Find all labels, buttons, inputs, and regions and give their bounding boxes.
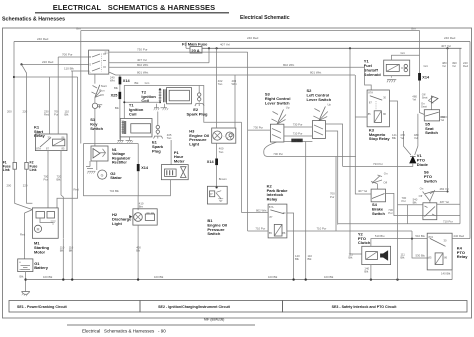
fuse F1 fuse link (3, 161, 17, 173)
spark plug E1 (152, 112, 164, 154)
spark plug E2 (187, 86, 208, 117)
wire blk between connectors (114, 84, 120, 91)
SE2 box (140, 301, 283, 313)
wire enclosure bottom to P1 (138, 180, 170, 196)
svg-text:-: - (224, 134, 225, 138)
wire branch to K1 (14, 77, 78, 134)
svg-text:Light: Light (189, 142, 199, 147)
wire 400 Blk H2 down to bus (136, 225, 141, 280)
relay K4 PTO relay (427, 233, 468, 270)
svg-text:−: − (19, 268, 21, 272)
svg-text:733 Pur: 733 Pur (373, 162, 383, 166)
svg-text:Meter: Meter (174, 159, 185, 164)
clutch Y2 PTO clutch (358, 231, 391, 264)
wire 540 Blk into S6 (398, 204, 423, 206)
svg-text:802 Wht: 802 Wht (137, 63, 148, 67)
svg-text:B: B (89, 55, 91, 59)
svg-text:Coil: Coil (129, 111, 137, 116)
svg-text:Yel: Yel (442, 64, 446, 68)
fuse F2 fuse link (25, 161, 38, 173)
svg-text:407 Yel: 407 Yel (358, 189, 368, 193)
wire Brown to B1 (216, 165, 228, 188)
svg-text:510 Blu: 510 Blu (415, 234, 425, 238)
connector X14 below H3 (207, 159, 218, 166)
svg-text:Blk: Blk (401, 256, 405, 260)
svg-text:Blk: Blk (135, 81, 139, 85)
svg-text:Yel: Yel (412, 97, 416, 101)
svg-text:730 Pur: 730 Pur (137, 48, 148, 52)
svg-text:87A: 87A (429, 235, 434, 239)
wire 407 Yel bus (202, 42, 462, 49)
svg-text:S: S (89, 63, 91, 67)
svg-text:Electrical Schematic: Electrical Schematic (240, 15, 290, 21)
svg-text:Diode: Diode (417, 162, 429, 167)
meter P1 hour meter (161, 150, 188, 180)
svg-text:87A: 87A (368, 91, 373, 95)
wire 480 Yel below X14 (412, 81, 424, 115)
connector X25 black (111, 92, 122, 99)
wire 720 Blk K1 down (57, 151, 64, 238)
svg-text:140 Blk: 140 Blk (441, 271, 451, 275)
svg-text:Seat: Seat (421, 104, 427, 108)
svg-text:407 Yel: 407 Yel (441, 44, 451, 48)
wire 482 Yel into S4 (358, 189, 368, 193)
svg-text:407 Yel: 407 Yel (220, 42, 230, 46)
wire S1 to N1 (94, 109, 96, 147)
svg-text:SE2 - Ignition/Charging/Instru: SE2 - Ignition/Charging/Instrument Circu… (158, 305, 230, 309)
wire 730 Pur drop at 247.6 (247, 52, 249, 231)
wire labels 230 Red 700 Pur 110 Blk (44, 110, 69, 117)
svg-text:Blk: Blk (392, 136, 396, 140)
ground below Y1 (387, 76, 396, 83)
svg-text:Yel: Yel (452, 64, 456, 68)
svg-text:110 Blk: 110 Blk (292, 139, 302, 143)
wire Wht into H3 right (232, 75, 237, 128)
wire 710 Pur from K2 to right (287, 227, 412, 262)
battery G1 (18, 259, 49, 272)
svg-text:Grn: Grn (145, 81, 150, 85)
wire into X14 (119, 75, 121, 77)
svg-text:100 Blk: 100 Blk (43, 275, 53, 279)
wire K4 to bus (451, 270, 453, 280)
SE1 box (9, 301, 140, 313)
switch S6 PTO switch (413, 170, 438, 220)
svg-text:M: M (37, 227, 40, 231)
svg-text:Blk: Blk (69, 249, 73, 253)
svg-text:110 Blk: 110 Blk (64, 66, 74, 70)
coil T1 ignition coil (120, 103, 152, 137)
svg-text:Link: Link (30, 168, 37, 172)
svg-text:200: 200 (7, 110, 12, 114)
svg-text:Link: Link (3, 168, 10, 172)
svg-text:730 Pur: 730 Pur (293, 123, 303, 127)
svg-text:Tan: Tan (167, 136, 172, 140)
svg-text:Off: Off (383, 180, 387, 184)
label 240 Wht (110, 76, 115, 83)
wire 407 Yel from S1 (109, 48, 209, 62)
wire 802 Wht drop to K3 (365, 67, 372, 90)
label 100 Blk near Y2 (349, 253, 354, 260)
svg-text:Solenoid: Solenoid (364, 72, 381, 77)
switch S3 right control lever switch (265, 92, 291, 142)
wire 110 Blk S3-S2 boxed label (284, 139, 313, 143)
wire 730 Pur S3-S2 (284, 123, 313, 127)
svg-text:Yel: Yel (414, 136, 418, 140)
wire 710 Pur into K2 (248, 226, 269, 231)
svg-text:Blk: Blk (349, 256, 353, 260)
svg-text:On: On (420, 186, 424, 190)
svg-text:87A: 87A (269, 205, 274, 209)
svg-text:Stop Relay: Stop Relay (369, 136, 390, 141)
fuse F3 main fuse 20A (182, 42, 208, 54)
switch B1 engine oil pressure switch (207, 186, 227, 236)
svg-text:220 Red: 220 Red (42, 60, 54, 64)
svg-text:100 Blk: 100 Blk (324, 275, 334, 279)
svg-text:Battery: Battery (34, 265, 49, 270)
svg-text:Run: Run (99, 89, 105, 93)
relay K2 park brake interlock relay (267, 183, 289, 238)
svg-text:Blk: Blk (136, 249, 140, 253)
svg-text:G: G (101, 173, 104, 177)
svg-text:801 Wht: 801 Wht (137, 71, 148, 75)
svg-text:801 Wht: 801 Wht (310, 71, 321, 75)
wire 710 Pur wrap (338, 205, 460, 224)
solenoid Y1 fuel shutoff solenoid (364, 59, 410, 77)
svg-text:Yel: Yel (440, 118, 444, 122)
svg-text:Schematics & Harnesses: Schematics & Harnesses (2, 17, 65, 23)
svg-text:407 Yel: 407 Yel (137, 58, 147, 62)
wire Grn corner down to X14 (419, 31, 421, 74)
connector X14 right black (418, 64, 430, 81)
wire 700 Pur label right (402, 196, 407, 203)
svg-text:Relay: Relay (457, 254, 468, 259)
svg-text:240 Red: 240 Red (454, 234, 465, 238)
svg-text:Blk: Blk (114, 86, 118, 90)
svg-text:Pur: Pur (388, 211, 392, 215)
wire 700 Pur to S1 (58, 52, 88, 134)
svg-text:510 Blu: 510 Blu (375, 234, 385, 238)
svg-text:Red: Red (20, 233, 26, 237)
svg-text:240 Red: 240 Red (37, 37, 49, 41)
svg-text:Grn: Grn (411, 27, 416, 31)
svg-text:Plug: Plug (152, 148, 161, 153)
svg-text:Up: Up (327, 103, 331, 107)
svg-text:710 Pur: 710 Pur (443, 219, 453, 223)
wire 510 Blu (371, 234, 427, 246)
svg-text:220: 220 (23, 110, 28, 114)
wire 530 Blu into K4 (412, 231, 429, 258)
footer rule (67, 324, 255, 326)
key symbol (92, 97, 102, 108)
wire engine enclosure top (124, 86, 241, 123)
svg-text:+: + (19, 261, 21, 265)
svg-text:Stator: Stator (110, 175, 122, 180)
wire 482 Yel down to S6 lever (430, 117, 449, 194)
relay K3 magneto stop relay (367, 90, 390, 141)
svg-text:Pur: Pur (402, 199, 406, 203)
svg-text:100 Blk: 100 Blk (154, 275, 164, 279)
connector X14 on enclosure edge (137, 164, 149, 171)
wire Grn into Y1 (392, 51, 420, 60)
svg-text:Spark Plug: Spark Plug (187, 112, 208, 117)
regulator N1 voltage regulator rectifier (91, 146, 130, 165)
wire S2 right out (326, 124, 343, 225)
svg-text:Grn: Grn (424, 64, 429, 68)
wire 482 Yel from S5 (440, 115, 448, 122)
svg-text:240 Red: 240 Red (247, 36, 259, 40)
svg-text:Off: Off (419, 194, 423, 198)
svg-text:Blk: Blk (115, 106, 119, 110)
svg-text:X14: X14 (141, 166, 149, 170)
svg-text:730 Pur: 730 Pur (253, 126, 263, 130)
svg-text:Wht: Wht (110, 79, 115, 83)
switch S1 start run off lever (92, 84, 107, 97)
svg-text:Blk: Blk (65, 113, 69, 117)
svg-text:Clutch: Clutch (358, 240, 371, 245)
svg-text:Switch: Switch (90, 126, 103, 131)
wire 470 Yel drop (392, 131, 411, 155)
switch S1 key switch box (89, 50, 109, 74)
wire 405 Tan to hour meter (167, 133, 172, 165)
svg-text:87A: 87A (36, 147, 41, 151)
svg-text:Light: Light (112, 221, 122, 226)
svg-text:200: 200 (7, 184, 12, 188)
wire 700 Pur long (264, 142, 356, 157)
wire 110 Blk to S1 (64, 66, 89, 71)
svg-text:Blk: Blk (60, 249, 64, 253)
wire 410 Brn to H2 (138, 196, 144, 210)
switch S5 seat switch (421, 92, 440, 135)
svg-text:Red: Red (74, 188, 80, 192)
svg-text:X14: X14 (422, 75, 430, 79)
svg-text:Pur: Pur (54, 113, 58, 117)
svg-text:Wht: Wht (232, 82, 237, 86)
svg-text:MIF (88W208): MIF (88W208) (204, 318, 224, 322)
svg-text:Blk: Blk (57, 178, 61, 182)
svg-text:704 Blk: 704 Blk (110, 189, 120, 193)
svg-text:Lever Switch: Lever Switch (307, 97, 332, 102)
wire Blk battery to ground (20, 272, 27, 292)
svg-text:802 Wht: 802 Wht (283, 63, 294, 67)
svg-text:ELECTRICAL SCHEMATICS & HARN: ELECTRICAL SCHEMATICS & HARNESSES (53, 3, 216, 12)
wire K3 30 out (389, 101, 397, 280)
svg-text:487 Yel: 487 Yel (440, 200, 450, 204)
switch S2 left control lever switch (307, 88, 332, 138)
svg-text:802 Wht: 802 Wht (256, 208, 267, 212)
wire 801 Wht into K3 85 (355, 75, 371, 194)
wire S4 out down (386, 193, 461, 215)
wire right 490 Yel drop (442, 48, 469, 117)
svg-text:100 Blk: 100 Blk (268, 275, 278, 279)
title rule (35, 12, 229, 14)
svg-text:Blk: Blk (364, 269, 368, 273)
wire 802 Wht from S1 (109, 63, 365, 67)
svg-text:X14: X14 (123, 79, 131, 83)
wire 240 Red right drop to K4 (469, 42, 471, 239)
ground below T1 (118, 137, 133, 143)
wire S2 down to bus (305, 142, 307, 280)
relay K1 start relay (34, 124, 45, 138)
wire into S3 left (248, 129, 271, 131)
wire 710 Pur S3-S2 (284, 132, 313, 136)
wire K2 30 out right (287, 213, 294, 280)
wire 240 Red into K4 (452, 234, 470, 239)
wire 100 Blk ground bus (26, 271, 453, 280)
svg-text:Blk: Blk (413, 200, 417, 204)
wire Grn top bus (76, 27, 420, 31)
wire 730 Pur from S1 (109, 48, 248, 53)
wire long vertical 351 (350, 48, 362, 254)
svg-text:Up: Up (286, 105, 290, 109)
svg-text:Red: Red (463, 64, 469, 68)
motor M1 starting motor (32, 208, 58, 255)
svg-text:Rectifier: Rectifier (112, 161, 127, 165)
svg-text:Brown: Brown (219, 177, 227, 181)
ground in alternator box (86, 161, 96, 174)
wire drop 254.7 (241, 122, 243, 212)
wire 200 down from 240 Red corner (7, 42, 15, 163)
lamp H2 discharge light (112, 209, 157, 226)
svg-text:Electrical Schematics & Harn: Electrical Schematics & Harnesses - 90 (82, 329, 166, 334)
svg-text:Switch: Switch (372, 211, 385, 216)
svg-text:Off: Off (100, 93, 104, 97)
switch S4 brake switch (371, 171, 388, 215)
wire 700 Pur down to 710 line (330, 157, 336, 232)
svg-text:Grn: Grn (76, 27, 81, 31)
wire 141 Blk down to bus (401, 253, 406, 260)
svg-text:Yel: Yel (400, 136, 404, 140)
svg-text:Pur: Pur (330, 195, 334, 199)
svg-text:482 Yel: 482 Yel (440, 187, 450, 191)
svg-text:Red: Red (44, 113, 50, 117)
svg-text:Relay: Relay (267, 197, 278, 202)
wire 220 down to F2 (22, 64, 28, 162)
wire blk below X25 (115, 99, 120, 140)
connector X14 black (119, 77, 131, 85)
svg-text:Brn: Brn (139, 205, 144, 209)
box alternator enclosure (84, 144, 139, 196)
wire 220 Red branch (20, 60, 88, 66)
wire Red to battery (20, 210, 32, 259)
wire F1 to starter (15, 169, 33, 209)
svg-text:Tan: Tan (218, 82, 223, 86)
wire 400 Tan below H3 (217, 143, 224, 158)
svg-text:X14: X14 (207, 160, 215, 164)
svg-text:X25: X25 (111, 94, 118, 98)
wire 110 Blk second down (69, 71, 74, 279)
svg-text:Switch: Switch (207, 231, 220, 236)
coil T2 ignition coil (123, 88, 191, 104)
wire 140 Blk Y2 down (364, 265, 371, 280)
wire Red down right of K1 (57, 77, 79, 208)
svg-text:Blk: Blk (20, 275, 24, 279)
svg-text:530 Blu: 530 Blu (416, 253, 426, 257)
svg-text:700 Pur: 700 Pur (62, 52, 73, 56)
svg-text:710 Pur: 710 Pur (255, 226, 265, 230)
wire 801 Wht from S1 (109, 71, 355, 75)
svg-text:710 Pur: 710 Pur (317, 227, 327, 231)
svg-text:SE3 - Safety Interlock and PTO: SE3 - Safety Interlock and PTO Circuit (332, 305, 398, 309)
wire 487 Yel S6 right (437, 48, 460, 224)
wire F2 to starter (27, 169, 33, 203)
svg-text:On: On (384, 171, 388, 175)
svg-text:Blk: Blk (295, 257, 299, 261)
wire 480 Yel drop to diode (414, 114, 419, 155)
stator G2 (97, 161, 122, 180)
wire diode down left (343, 163, 413, 167)
ground below T2 (154, 104, 168, 110)
diode V1 PTO diode (410, 153, 429, 167)
svg-text:220: 220 (23, 184, 28, 188)
svg-text:240 Red: 240 Red (444, 36, 456, 40)
svg-text:Switch: Switch (424, 178, 437, 183)
wire Grn drop from top (80, 31, 82, 144)
svg-text:SE1 - Power/Cranking Circuit: SE1 - Power/Cranking Circuit (17, 305, 68, 309)
svg-text:710 Pur: 710 Pur (293, 132, 303, 136)
lamp H3 engine oil pressure light (189, 128, 236, 147)
svg-text:Pur: Pur (44, 178, 48, 182)
svg-text:Grn: Grn (401, 51, 406, 55)
label S1 key switch (90, 117, 103, 131)
wire 110 Blk starter down (60, 238, 65, 279)
wire S1 bottom to lever (94, 74, 96, 84)
wire 700 Pur K1 down (44, 151, 49, 208)
svg-text:Seat: Seat (422, 95, 428, 99)
svg-text:Switch: Switch (425, 130, 438, 135)
wire 802 Wht into K2 (242, 208, 269, 212)
svg-text:Blk: Blk (308, 257, 312, 261)
svg-text:Start: Start (101, 84, 107, 88)
wire 240 Red bus (14, 36, 470, 42)
wire labels 200 220 lower (7, 184, 28, 188)
svg-text:Tan: Tan (219, 150, 224, 154)
wire 402 Tan into H3 (217, 48, 223, 128)
ground battery (22, 292, 30, 297)
svg-text:700 Pur: 700 Pur (273, 152, 283, 156)
svg-text:Motor: Motor (34, 249, 46, 254)
SE3 box (283, 301, 468, 313)
